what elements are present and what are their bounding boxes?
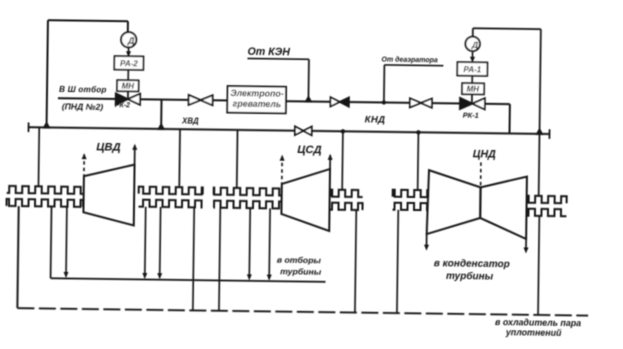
svg-text:ЦВД: ЦВД [96,142,120,154]
svg-text:РА-1: РА-1 [463,65,481,74]
svg-text:МН: МН [121,82,134,91]
svg-text:в отборы: в отборы [277,255,322,266]
svg-text:В Ш отбор: В Ш отбор [59,84,107,95]
svg-text:КНД: КНД [365,114,386,125]
svg-text:ЦНД: ЦНД [473,148,497,160]
svg-text:турбины: турбины [280,266,322,277]
svg-text:уплотнений: уплотнений [505,327,562,338]
svg-text:ЦСД: ЦСД [297,144,321,156]
svg-text:РА-2: РА-2 [120,59,138,68]
svg-text:РК-2: РК-2 [115,102,130,109]
svg-text:(ПНД №2): (ПНД №2) [62,101,104,112]
svg-text:МН: МН [466,85,479,94]
svg-text:в конденсатор: в конденсатор [434,258,510,270]
svg-text:От деаэратора: От деаэратора [381,55,438,64]
svg-text:От КЭН: От КЭН [247,46,290,59]
svg-text:Д: Д [127,36,135,46]
svg-text:Д: Д [471,40,478,50]
svg-text:греватель: греватель [233,99,282,110]
svg-text:ХВД: ХВД [181,116,199,125]
svg-text:Электропо-: Электропо- [230,88,283,99]
svg-text:турбины: турбины [446,270,494,283]
svg-text:РК-1: РК-1 [463,111,479,120]
